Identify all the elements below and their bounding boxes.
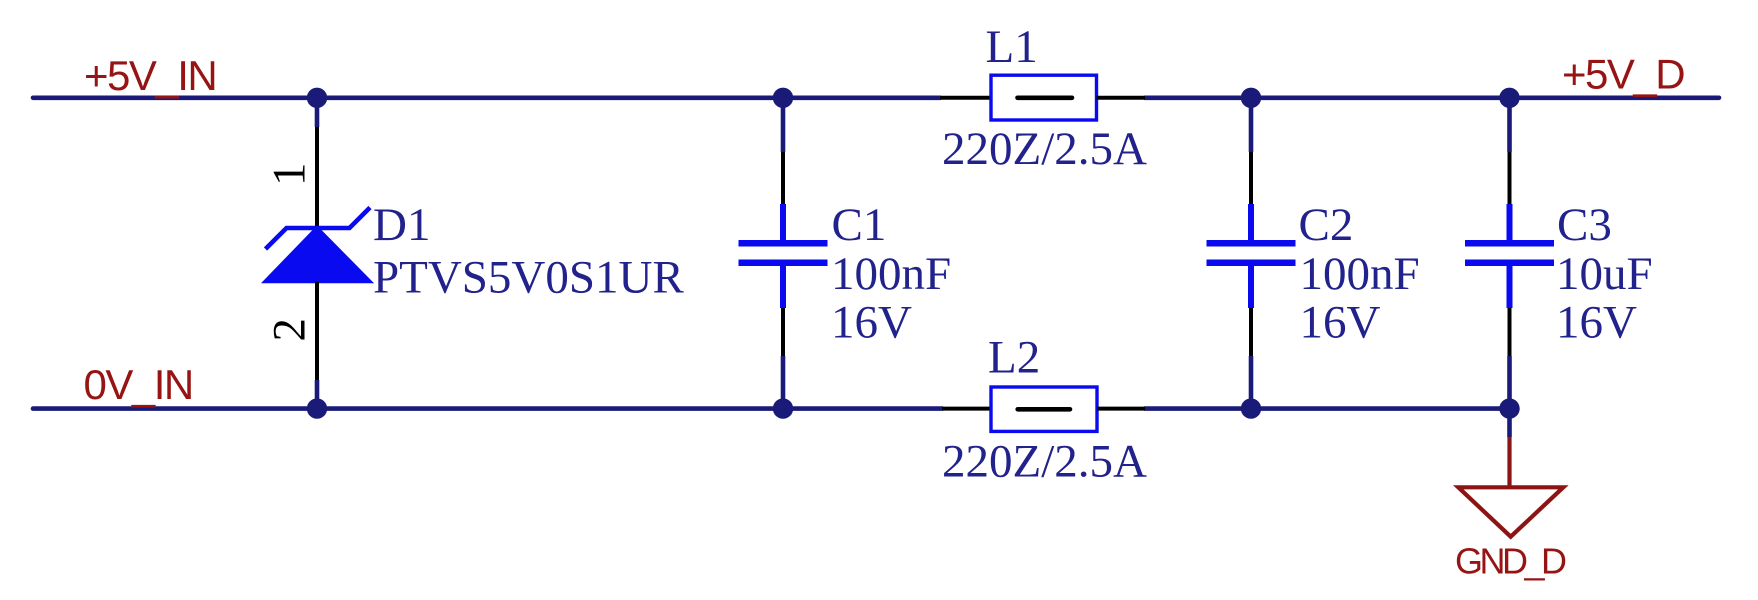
svg-text:L2: L2 bbox=[988, 332, 1040, 384]
svg-text:+5V_IN: +5V_IN bbox=[84, 52, 216, 99]
svg-text:220Z/2.5A: 220Z/2.5A bbox=[942, 436, 1147, 488]
C3 pin 2 (black) bbox=[1508, 308, 1512, 356]
svg-text:C2: C2 bbox=[1299, 199, 1354, 251]
capacitor C1 symbol bbox=[739, 204, 828, 308]
wire: stub C2 to bottom rail bbox=[1249, 356, 1254, 409]
wire: bottom rail left segment (0V_IN net) bbox=[33, 406, 942, 411]
junction node: top rail / C1 bbox=[773, 88, 793, 108]
svg-text:+5V_D: +5V_D bbox=[1562, 51, 1684, 98]
wire: stub top rail to C3 bbox=[1507, 98, 1512, 152]
wire: stub top rail to C2 bbox=[1249, 98, 1254, 152]
ground GND_D lead bbox=[1507, 437, 1511, 487]
junction node: top rail / C2 bbox=[1241, 88, 1261, 108]
inductor / ferrite bead L2 body bbox=[991, 387, 1097, 431]
svg-text:1: 1 bbox=[264, 163, 316, 187]
svg-text:D1: D1 bbox=[373, 199, 430, 251]
wire: stub D1 pin 2 to bottom rail bbox=[315, 380, 320, 409]
junction node: bottom rail / D1 bbox=[307, 398, 327, 418]
L1 pin 2 (black) bbox=[1097, 96, 1146, 100]
wire: stub top rail to D1 pin 1 bbox=[315, 98, 320, 127]
junction node: bottom rail / C2 bbox=[1241, 398, 1261, 418]
L1 core bar bbox=[1018, 96, 1073, 101]
svg-text:100nF: 100nF bbox=[1300, 248, 1420, 300]
C1 pin 1 (black) bbox=[781, 152, 785, 204]
wire: stub junction to ground symbol bbox=[1507, 409, 1512, 437]
L2 core bar bbox=[1018, 407, 1070, 412]
svg-text:10uF: 10uF bbox=[1556, 248, 1653, 300]
wire: stub top rail to C1 bbox=[781, 98, 786, 152]
wire: stub C3 to bottom rail bbox=[1507, 356, 1512, 409]
D1 pin 2 (black pin line) bbox=[315, 282, 319, 380]
svg-text:100nF: 100nF bbox=[831, 248, 951, 300]
D1 cathode Z-bar bbox=[266, 208, 371, 250]
svg-text:16V: 16V bbox=[1556, 297, 1637, 349]
capacitor C2 symbol bbox=[1207, 204, 1296, 308]
wire: bottom rail right segment bbox=[1145, 406, 1510, 411]
svg-text:GND_D: GND_D bbox=[1455, 541, 1566, 582]
transistor-suppressor diode D1 body: filled triangle bbox=[265, 228, 371, 282]
ground GND_D triangle bbox=[1458, 487, 1563, 536]
C2 pin 1 (black) bbox=[1249, 152, 1253, 204]
L2 pin 1 (black) bbox=[942, 407, 991, 411]
C1 pin 2 (black) bbox=[781, 308, 785, 356]
junction node: bottom rail / C1 bbox=[773, 398, 793, 418]
svg-text:0V_IN: 0V_IN bbox=[84, 361, 193, 408]
L1 pin 1 (black) bbox=[940, 96, 991, 100]
svg-text:L1: L1 bbox=[986, 21, 1038, 73]
svg-text:PTVS5V0S1UR: PTVS5V0S1UR bbox=[373, 252, 684, 304]
junction node: bottom rail / C3 / GND bbox=[1499, 398, 1519, 418]
svg-text:C3: C3 bbox=[1557, 199, 1612, 251]
wire: stub C1 to bottom rail bbox=[781, 356, 786, 409]
wire: top rail right segment (+5V_D net) bbox=[1145, 96, 1719, 101]
svg-text:16V: 16V bbox=[831, 297, 912, 349]
L2 pin 2 (black) bbox=[1097, 407, 1145, 411]
junction node: top rail / D1 bbox=[307, 88, 327, 108]
svg-text:2: 2 bbox=[264, 318, 316, 342]
junction node: top rail / C3 bbox=[1499, 88, 1519, 108]
wire: top rail left segment (+5V_IN net) bbox=[33, 96, 940, 101]
capacitor C3 symbol bbox=[1465, 204, 1554, 308]
C2 pin 2 (black) bbox=[1249, 308, 1253, 356]
svg-text:16V: 16V bbox=[1300, 297, 1381, 349]
C3 pin 1 (black) bbox=[1508, 152, 1512, 204]
svg-text:C1: C1 bbox=[832, 199, 887, 251]
svg-text:220Z/2.5A: 220Z/2.5A bbox=[942, 123, 1147, 175]
D1 pin 1 (black pin line) bbox=[315, 127, 319, 230]
inductor / ferrite bead L1 body bbox=[991, 75, 1097, 120]
